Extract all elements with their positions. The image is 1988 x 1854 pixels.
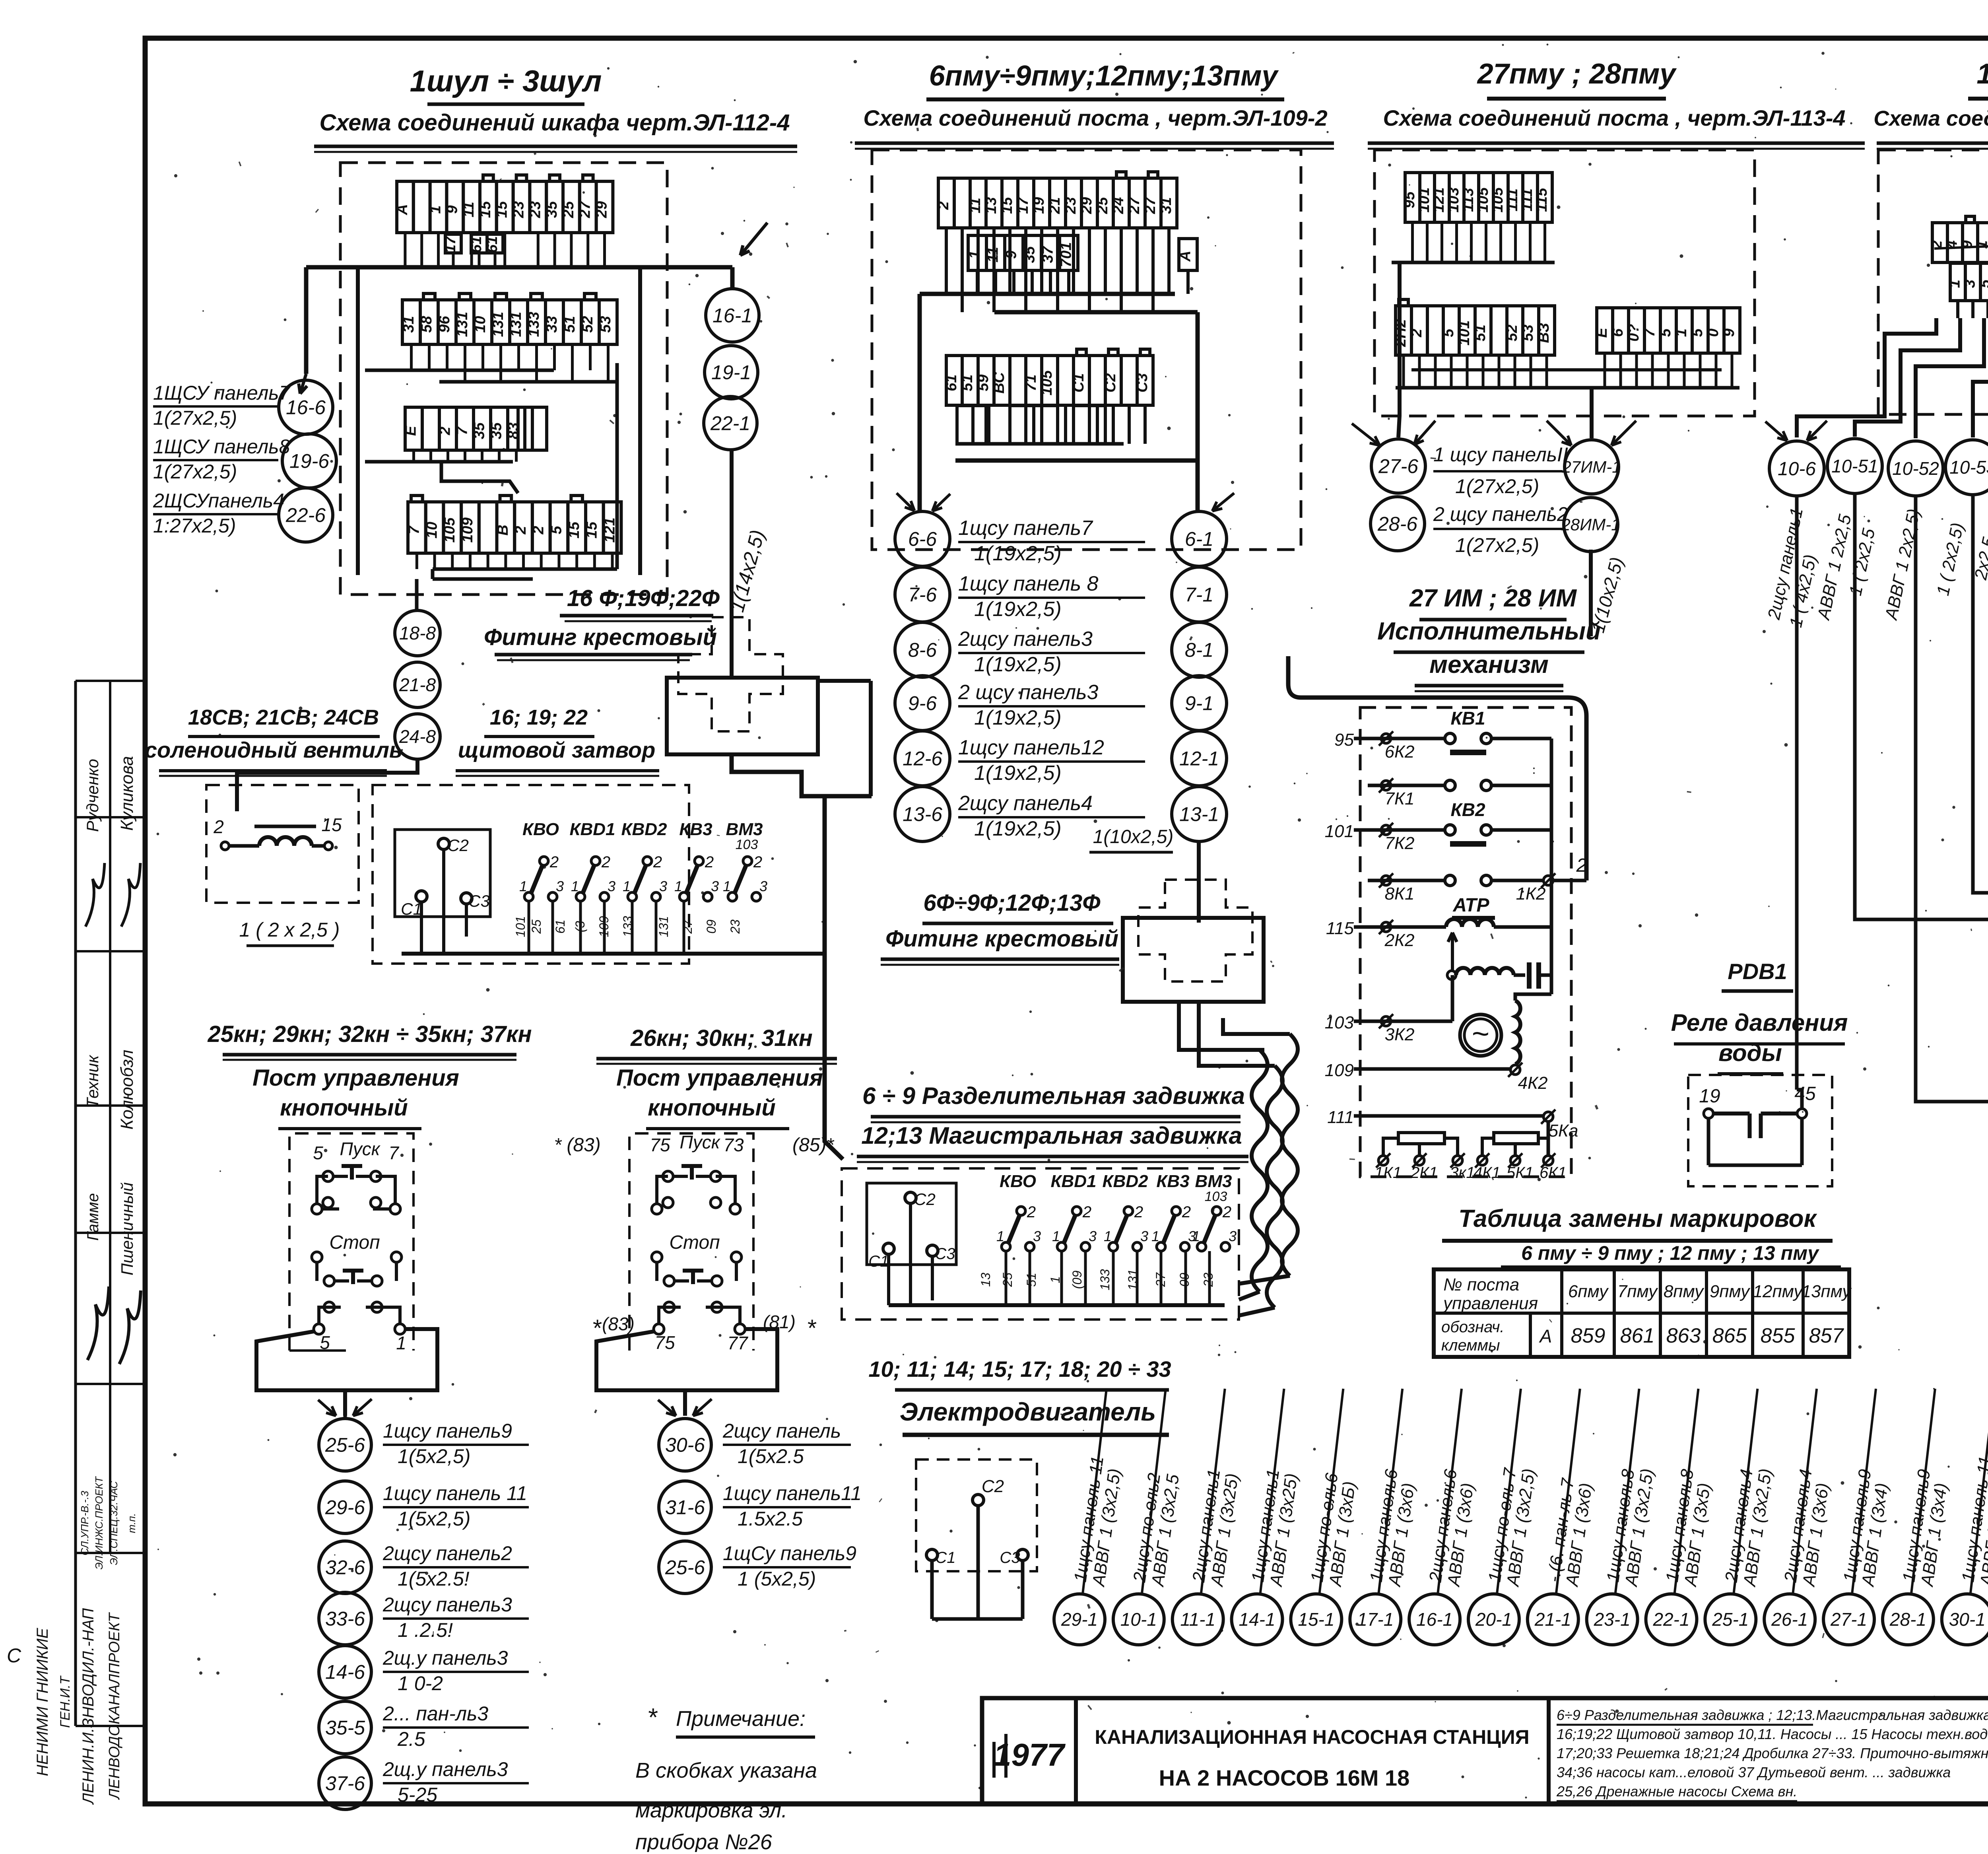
svg-text:12-6: 12-6 — [903, 748, 942, 770]
pusk outer terminals — [312, 1204, 322, 1214]
svg-text:2: 2 — [549, 853, 559, 871]
stop button 26kn — [652, 1252, 662, 1262]
svg-text:53: 53 — [597, 316, 614, 332]
svg-text:КВ3: КВ3 — [679, 820, 712, 839]
svg-text:1(27х2,5): 1(27х2,5) — [1455, 534, 1539, 556]
ATR tap arrow and node — [1451, 933, 1454, 970]
svg-text:24-8: 24-8 — [399, 726, 436, 747]
svg-text:3К2: 3К2 — [1385, 1025, 1415, 1044]
svg-text:75: 75 — [650, 1135, 670, 1155]
IM rail 8K1 1K2 — [1368, 879, 1445, 882]
svg-text:24: 24 — [1110, 197, 1127, 214]
svg-text:2щсу панель3: 2щсу панель3 — [382, 1594, 512, 1616]
svg-text:Схема соединений шкафа черт.ЭЛ: Схема соединений шкафа черт.ЭЛ-112-4 — [320, 110, 790, 136]
wire section A box bottom to solenoid nodes — [415, 579, 419, 610]
cross fitting A body box — [667, 678, 818, 754]
svg-text:Схема соединений поста , черт.: Схема соединений поста , черт.ЭЛ-113-4 — [1383, 105, 1845, 130]
svg-text:2: 2 — [530, 526, 547, 534]
svg-text:Фитинг крестовый: Фитинг крестовый — [885, 926, 1118, 952]
node 26-1 with cable label — [1764, 1594, 1815, 1645]
svg-text:ЛЕНВОДОКАНАЛПРОЕКТ: ЛЕНВОДОКАНАЛПРОЕКТ — [106, 1612, 123, 1800]
push-button post 26kn dashed box — [629, 1133, 753, 1351]
svg-text:1щсу панель7: 1щсу панель7 — [958, 517, 1093, 540]
svg-text:1: 1 — [723, 878, 731, 894]
C node circles — [1371, 439, 1425, 493]
svg-text:14-1: 14-1 — [1239, 1609, 1276, 1630]
stop button 25kn — [312, 1252, 322, 1262]
IM rail 7K1 — [1368, 784, 1445, 787]
svg-text:15: 15 — [494, 201, 511, 218]
svg-text:КВD2: КВD2 — [1102, 1172, 1148, 1191]
svg-text:37-6: 37-6 — [325, 1772, 365, 1795]
svg-text:2: 2 — [1222, 1203, 1231, 1221]
B node circles and labels — [895, 511, 950, 566]
svg-text:13пму: 13пму — [1802, 1282, 1852, 1301]
svg-text:Пуск: Пуск — [340, 1139, 381, 1159]
svg-text:1 ( 2 х 2,5 ): 1 ( 2 х 2,5 ) — [239, 919, 340, 941]
svg-text:1щсу панель 11: 1щсу панель 11 — [383, 1482, 527, 1504]
svg-text:1.5х2.5: 1.5х2.5 — [738, 1508, 803, 1530]
svg-text:29-6: 29-6 — [325, 1496, 365, 1519]
svg-text:2: 2 — [437, 427, 454, 435]
motor bottom bus — [932, 1617, 1023, 1621]
svg-text:10; 11; 14; 15; 17; 18; 20 ÷: 10; 11; 14; 15; 17; 18; 20 ÷ 33 — [868, 1356, 1171, 1382]
gate bus — [402, 952, 689, 956]
svg-text:В скобках указана: В скобках указана — [635, 1759, 817, 1782]
node 16-1 with cable label — [1409, 1594, 1460, 1645]
svg-text:13-6: 13-6 — [903, 803, 942, 826]
svg-text:30-1: 30-1 — [1949, 1609, 1986, 1630]
terminal strip C2b — [1597, 308, 1613, 353]
svg-text:59: 59 — [975, 375, 992, 391]
svg-text:09: 09 — [704, 919, 718, 934]
svg-text:32-6: 32-6 — [325, 1557, 365, 1579]
svg-text:29-1: 29-1 — [1061, 1609, 1098, 1630]
svg-text:3: 3 — [556, 878, 564, 894]
svg-text:23-1: 23-1 — [1594, 1609, 1631, 1630]
svg-text:7К2: 7К2 — [1385, 834, 1415, 853]
svg-text:35: 35 — [1021, 246, 1038, 263]
svg-text:115: 115 — [1326, 919, 1354, 938]
svg-text:23: 23 — [1062, 197, 1079, 214]
svg-text:18СВ; 21СВ; 24СВ: 18СВ; 21СВ; 24СВ — [188, 705, 379, 729]
svg-text:3: 3 — [759, 878, 767, 894]
svg-text:обознач.: обознач. — [1441, 1318, 1505, 1336]
node 14-1 with cable label — [1232, 1594, 1283, 1645]
svg-text:*: * — [647, 1703, 658, 1732]
svg-text:№ поста: № поста — [1443, 1275, 1519, 1294]
svg-text:1(19х2,5): 1(19х2,5) — [974, 542, 1062, 565]
svg-text:15: 15 — [566, 521, 582, 538]
svg-text:115: 115 — [1534, 188, 1550, 212]
node 25-1 with cable label — [1705, 1594, 1756, 1645]
svg-text:1щСу панель9: 1щСу панель9 — [723, 1542, 856, 1564]
svg-text:3к1: 3к1 — [1450, 1164, 1475, 1182]
svg-text:1шул ÷ 3шул: 1шул ÷ 3шул — [410, 64, 602, 98]
svg-text:Гамме: Гамме — [84, 1193, 102, 1241]
motor terminals C1 C2 C3 — [973, 1494, 984, 1506]
svg-text:5: 5 — [1440, 328, 1457, 337]
svg-text:6 ÷ 9 Разделительная задвижк: 6 ÷ 9 Разделительная задвижка — [862, 1082, 1245, 1109]
svg-text:1: 1 — [967, 251, 983, 259]
svg-text:1: 1 — [1947, 280, 1963, 288]
svg-text:С2: С2 — [982, 1477, 1004, 1496]
wire bus drop to node 16-1 — [730, 267, 735, 289]
wires strip C1 — [1411, 222, 1414, 262]
svg-text:10-6: 10-6 — [1778, 459, 1816, 480]
svg-text:1щсу панель 8: 1щсу панель 8 — [958, 572, 1099, 595]
svg-text:2 щсу панель3: 2 щсу панель3 — [958, 681, 1099, 704]
svg-text:А: А — [1177, 251, 1194, 262]
wire box under 25kn buttons — [256, 1329, 437, 1390]
svg-text:1(27х2,5): 1(27х2,5) — [1455, 475, 1539, 498]
svg-text:105: 105 — [441, 517, 458, 542]
svg-text:25-6: 25-6 — [325, 1434, 365, 1456]
svg-text:859: 859 — [1571, 1324, 1606, 1347]
svg-text:131: 131 — [454, 312, 471, 337]
svg-text:105: 105 — [1475, 187, 1491, 212]
terminal strip D1 — [1932, 223, 1947, 262]
svg-text:1 щсу панельII: 1 щсу панельII — [1433, 443, 1568, 466]
svg-text:ВМ3: ВМ3 — [1195, 1172, 1232, 1191]
svg-text:1: 1 — [674, 878, 682, 894]
svg-text:С3: С3 — [1000, 1549, 1020, 1566]
svg-text:10-52: 10-52 — [1892, 458, 1939, 479]
svg-text:ЛЕНИН.И.ЗНВОДИЛ.-НАП: ЛЕНИН.И.ЗНВОДИЛ.-НАП — [80, 1608, 97, 1805]
svg-text:28ИМ-1: 28ИМ-1 — [1561, 515, 1620, 534]
risers to C node circles — [1398, 262, 1400, 437]
svg-text:ВМ3: ВМ3 — [726, 820, 763, 839]
node 29-1 with cable label — [1054, 1594, 1105, 1645]
svg-text:механизм: механизм — [1429, 651, 1549, 678]
svg-text:28-1: 28-1 — [1889, 1609, 1926, 1630]
svg-text:КВО: КВО — [522, 820, 559, 839]
svg-text:АТР: АТР — [1452, 895, 1489, 916]
svg-text:2 щсу панель2: 2 щсу панель2 — [1433, 503, 1568, 525]
svg-text:103: 103 — [1445, 187, 1462, 212]
svg-text:13-1: 13-1 — [1179, 803, 1219, 826]
svg-text:5: 5 — [320, 1332, 330, 1353]
svg-text:*: * — [806, 1315, 816, 1341]
motor dashed box — [916, 1459, 1037, 1571]
svg-text:19: 19 — [1031, 197, 1047, 214]
section C dashed enclosure — [1375, 150, 1755, 416]
svg-text:Е: Е — [403, 425, 419, 436]
svg-text:16-1: 16-1 — [1416, 1609, 1453, 1630]
svg-text:27ИМ-1: 27ИМ-1 — [1561, 458, 1621, 476]
svg-text:управления: управления — [1442, 1294, 1538, 1313]
svg-text:* (83): * (83) — [554, 1135, 600, 1156]
svg-text:75: 75 — [654, 1332, 675, 1353]
svg-text:1(10х2,5): 1(10х2,5) — [1093, 826, 1174, 847]
svg-text:27 ИМ ; 28 ИМ: 27 ИМ ; 28 ИМ — [1409, 585, 1577, 612]
arrows into node 30-6 — [683, 1390, 687, 1416]
svg-text:33: 33 — [544, 316, 560, 332]
terminal strip A3 — [405, 407, 422, 450]
wires strip B2 to lower buses — [984, 405, 988, 444]
svg-text:С3: С3 — [1134, 373, 1151, 393]
svg-text:23: 23 — [728, 919, 742, 934]
B2 bus — [889, 1303, 1225, 1307]
svg-text:865: 865 — [1712, 1324, 1747, 1347]
IM motor — [1460, 1014, 1501, 1056]
svg-text:3: 3 — [608, 878, 615, 894]
svg-text:соленоидный вентиль: соленоидный вентиль — [145, 737, 402, 762]
wavy cable triple to section B2 — [1179, 1002, 1260, 1050]
node 30-1 with cable label — [1942, 1594, 1988, 1645]
svg-text:1щсу панель9: 1щсу панель9 — [383, 1420, 512, 1442]
svg-text:3: 3 — [1033, 1228, 1041, 1244]
svg-text:51: 51 — [561, 316, 578, 332]
svg-text:КВD1: КВD1 — [1050, 1172, 1096, 1191]
svg-text:(09: (09 — [1070, 1271, 1084, 1289]
svg-text:15: 15 — [584, 521, 600, 538]
svg-text:5: 5 — [548, 526, 565, 534]
svg-text:Рудченко: Рудченко — [83, 759, 102, 832]
svg-text:7: 7 — [454, 426, 471, 435]
svg-text:НА 2 НАСОСОВ 16М 18: НА 2 НАСОСОВ 16М 18 — [1159, 1765, 1410, 1790]
svg-text:5К1: 5К1 — [1507, 1164, 1534, 1182]
svg-text:26кн; 30кн; 31кн: 26кн; 30кн; 31кн — [630, 1025, 813, 1051]
cross fitting B body box — [1123, 918, 1264, 1002]
svg-text:6-1: 6-1 — [1185, 528, 1213, 550]
svg-text:9пму: 9пму — [1710, 1282, 1751, 1301]
svg-text:109: 109 — [459, 517, 476, 542]
svg-text:77: 77 — [727, 1333, 748, 1353]
svg-text:861: 861 — [1620, 1324, 1655, 1347]
solenoid coil box dashed — [206, 785, 359, 903]
svg-text:1(19х2,5): 1(19х2,5) — [974, 762, 1062, 785]
svg-text:20-1: 20-1 — [1475, 1609, 1512, 1630]
svg-text:1(19х2,5): 1(19х2,5) — [974, 653, 1062, 676]
svg-text:105: 105 — [1039, 370, 1055, 395]
svg-text:С1: С1 — [1070, 373, 1087, 393]
svg-text:1ЩСУ панель7: 1ЩСУ панель7 — [153, 382, 291, 404]
svg-text:29: 29 — [594, 201, 610, 218]
svg-text:33-6: 33-6 — [325, 1608, 365, 1630]
svg-text:28-6: 28-6 — [1377, 513, 1417, 535]
svg-text:103: 103 — [736, 837, 758, 852]
svg-text:1: 1 — [519, 878, 527, 894]
node 23-1 with cable label — [1587, 1594, 1638, 1645]
svg-text:25: 25 — [1094, 197, 1111, 214]
node circles 16-1 19-1 22-1 — [706, 289, 759, 342]
gate motor terminals C1 C2 C3 — [438, 838, 449, 849]
svg-text:133: 133 — [526, 312, 542, 337]
svg-text:21-1: 21-1 — [1534, 1609, 1571, 1630]
svg-text:Реле давления: Реле давления — [1671, 1009, 1848, 1036]
cross fitting B dashed outline — [1138, 880, 1252, 981]
svg-text:3: 3 — [659, 878, 667, 894]
wire 24-8 to solenoid coil box — [237, 759, 417, 811]
svg-text:3: 3 — [1089, 1228, 1097, 1244]
svg-text:131: 131 — [656, 916, 671, 937]
svg-text:11: 11 — [460, 202, 477, 217]
svg-text:НЕНИМИ ГНИИКИЕ: НЕНИМИ ГНИИКИЕ — [34, 1627, 51, 1776]
IM resistors — [1398, 1133, 1444, 1144]
svg-text:45: 45 — [1794, 1083, 1816, 1104]
svg-text:16-6: 16-6 — [286, 396, 326, 419]
stop bottom contacts 5 1 — [314, 1324, 324, 1334]
node 20-1 with cable label — [1468, 1594, 1519, 1645]
svg-text:Пост управления: Пост управления — [252, 1065, 459, 1091]
svg-text:Исполнительный: Исполнительный — [1377, 618, 1601, 645]
svg-text:101: 101 — [513, 916, 528, 937]
svg-text:51: 51 — [959, 375, 976, 391]
svg-text:С3: С3 — [935, 1245, 955, 1263]
svg-text:С2: С2 — [447, 836, 469, 855]
svg-text:10-51: 10-51 — [1831, 456, 1878, 476]
svg-text:5: 5 — [1977, 279, 1988, 288]
svg-text:25: 25 — [560, 201, 577, 218]
wire through fitting A down-right to section B2 — [732, 754, 872, 796]
wires section D to node circles — [1956, 301, 1959, 318]
svg-text:22-1: 22-1 — [710, 412, 750, 435]
svg-text:1(5х2,5): 1(5х2,5) — [398, 1508, 470, 1530]
svg-text:2: 2 — [1082, 1203, 1091, 1221]
svg-text:121: 121 — [601, 517, 618, 542]
svg-text:А: А — [1539, 1326, 1552, 1347]
svg-text:2: 2 — [935, 201, 952, 210]
svg-text:1(5х2,5): 1(5х2,5) — [398, 1445, 470, 1467]
svg-text:1 0-2: 1 0-2 — [398, 1672, 443, 1695]
IM circuit dashed box — [1360, 707, 1571, 1177]
svg-text:61: 61 — [553, 919, 567, 934]
svg-text:2: 2 — [753, 853, 762, 871]
svg-text:2щсу панель2: 2щсу панель2 — [382, 1542, 512, 1564]
svg-text:ГЕН.И.Т: ГЕН.И.Т — [58, 1675, 73, 1728]
svg-text:73: 73 — [723, 1135, 744, 1155]
svg-text:8К1: 8К1 — [1385, 884, 1415, 904]
svg-text:13: 13 — [983, 197, 1000, 214]
side stamp column — [74, 681, 77, 1726]
svg-text:109: 109 — [1325, 1061, 1354, 1080]
svg-text:2.5: 2.5 — [397, 1728, 425, 1750]
svg-text:7-1: 7-1 — [1185, 584, 1213, 606]
svg-text:61: 61 — [484, 236, 501, 253]
svg-text:6 пму ÷ 9 пму ; 12 пму ; 13: 6 пму ÷ 9 пму ; 12 пму ; 13 пму — [1521, 1242, 1819, 1264]
svg-text:2К2: 2К2 — [1384, 931, 1415, 950]
svg-text:3: 3 — [711, 878, 719, 894]
wires strip A1 to bus — [404, 233, 406, 267]
terminal strip A1 — [397, 181, 414, 233]
svg-text:Колюобзл: Колюобзл — [117, 1050, 137, 1130]
node 28-1 with cable label — [1883, 1594, 1934, 1645]
cable 1(14x2,5) from node 22-1 down — [730, 450, 734, 678]
svg-text:25,26 Дренажные насосы Схем: 25,26 Дренажные насосы Схема вн. — [1556, 1783, 1797, 1800]
svg-text:*: * — [592, 1315, 602, 1341]
svg-text:1: 1 — [427, 205, 444, 214]
IM right winding and 4K2 — [1515, 1001, 1520, 1064]
svg-text:7пму: 7пму — [1617, 1282, 1658, 1301]
svg-text:Стоп: Стоп — [669, 1232, 720, 1253]
wires strip A2 to buses — [410, 344, 413, 370]
svg-text:6-6: 6-6 — [908, 528, 937, 550]
svg-text:А: А — [394, 204, 411, 215]
svg-text:7К1: 7К1 — [1385, 789, 1415, 808]
svg-text:31-6: 31-6 — [665, 1496, 705, 1519]
svg-text:35-5: 35-5 — [325, 1717, 365, 1739]
svg-text:25кн; 29кн; 32кн ÷ 35кн; 37кн: 25кн; 29кн; 32кн ÷ 35кн; 37кн — [207, 1021, 532, 1047]
push-button post 25kn dashed box — [289, 1133, 414, 1351]
svg-text:25-1: 25-1 — [1712, 1609, 1749, 1630]
svg-text:1(19х2,5): 1(19х2,5) — [974, 817, 1062, 840]
svg-text:35: 35 — [471, 422, 488, 439]
svg-text:2: 2 — [1027, 1203, 1036, 1221]
svg-text:15: 15 — [999, 197, 1015, 214]
IM right bus — [1550, 738, 1553, 994]
svg-text:КАНАЛИЗАЦИОННАЯ НАСОСНАЯ СТА: КАНАЛИЗАЦИОННАЯ НАСОСНАЯ СТАНЦИЯ — [1095, 1726, 1529, 1748]
svg-text:1щсу панель12: 1щсу панель12 — [958, 736, 1104, 759]
svg-text:22-1: 22-1 — [1652, 1609, 1689, 1630]
svg-text:23: 23 — [527, 201, 544, 218]
svg-text:3: 3 — [1229, 1228, 1237, 1244]
svg-text:2щ.у панель3: 2щ.у панель3 — [382, 1647, 508, 1669]
svg-text:Техник: Техник — [83, 1054, 102, 1108]
svg-text:10: 10 — [423, 522, 440, 538]
svg-text:17-1: 17-1 — [1357, 1609, 1394, 1630]
svg-text:25: 25 — [1000, 1273, 1015, 1287]
svg-text:857: 857 — [1809, 1324, 1844, 1347]
svg-text:С2: С2 — [914, 1190, 936, 1209]
svg-text:ЭЛ.СПЕЦ.32.ЧАС: ЭЛ.СПЕЦ.32.ЧАС — [108, 1481, 120, 1565]
wires fitting B down to wavy cables — [1179, 1002, 1264, 1050]
svg-text:6К2: 6К2 — [1385, 742, 1415, 762]
svg-text:71: 71 — [1023, 375, 1039, 391]
svg-text:9: 9 — [1721, 328, 1738, 337]
svg-text:(85)*: (85)* — [792, 1135, 834, 1156]
svg-text:кнопочный: кнопочный — [648, 1095, 776, 1121]
svg-text:2: 2 — [213, 816, 224, 837]
svg-text:Пуск: Пуск — [679, 1132, 720, 1152]
svg-text:1щсу панель11: 1щсу панель11 — [723, 1482, 862, 1504]
svg-text:2: 2 — [601, 853, 610, 871]
svg-text:0: 0 — [1705, 328, 1722, 337]
terminal strip A1 lower row — [445, 234, 461, 253]
svg-text:7-6: 7-6 — [908, 584, 937, 606]
svg-text:КВD2: КВD2 — [621, 820, 667, 839]
svg-text:С: С — [7, 1644, 21, 1667]
svg-text:Примечание:: Примечание: — [676, 1707, 806, 1731]
svg-text:С1: С1 — [868, 1253, 889, 1270]
svg-text:6÷9 Разделительная задвижка ;: 6÷9 Разделительная задвижка ; 12;13.Маги… — [1557, 1707, 1988, 1723]
B2 motor terminals — [905, 1192, 916, 1203]
gate bus exit to right riser — [689, 952, 825, 956]
svg-text:1: 1 — [996, 1228, 1004, 1244]
svg-text:С1: С1 — [935, 1549, 955, 1566]
riser to section B2 — [825, 796, 843, 1159]
svg-text:6пму: 6пму — [1568, 1282, 1609, 1301]
svg-text:5-25: 5-25 — [398, 1784, 437, 1806]
svg-text:1: 1 — [1151, 1228, 1159, 1244]
svg-text:51: 51 — [1024, 1273, 1039, 1287]
section D dashed enclosure — [1878, 150, 1988, 414]
svg-text:1: 1 — [623, 878, 631, 894]
svg-text:105: 105 — [1489, 187, 1506, 212]
svg-text:6пму÷9пму;12пму;13пму: 6пму÷9пму;12пму;13пму — [929, 60, 1279, 92]
svg-text:9: 9 — [444, 205, 460, 214]
svg-text:19-1: 19-1 — [711, 361, 751, 384]
inner solid box verticals — [356, 267, 360, 575]
svg-text:Таблица замены маркировок: Таблица замены маркировок — [1458, 1205, 1817, 1232]
svg-text:22-6: 22-6 — [285, 504, 326, 527]
left node circle column 25-6..37-6 — [319, 1419, 371, 1471]
svg-text:23: 23 — [511, 201, 527, 218]
terminal strip B1 lower row — [968, 235, 986, 270]
svg-text:прибора №26: прибора №26 — [635, 1830, 773, 1852]
svg-text:маркировка эл.: маркировка эл. — [635, 1798, 787, 1822]
node 17-1 with cable label — [1350, 1594, 1401, 1645]
